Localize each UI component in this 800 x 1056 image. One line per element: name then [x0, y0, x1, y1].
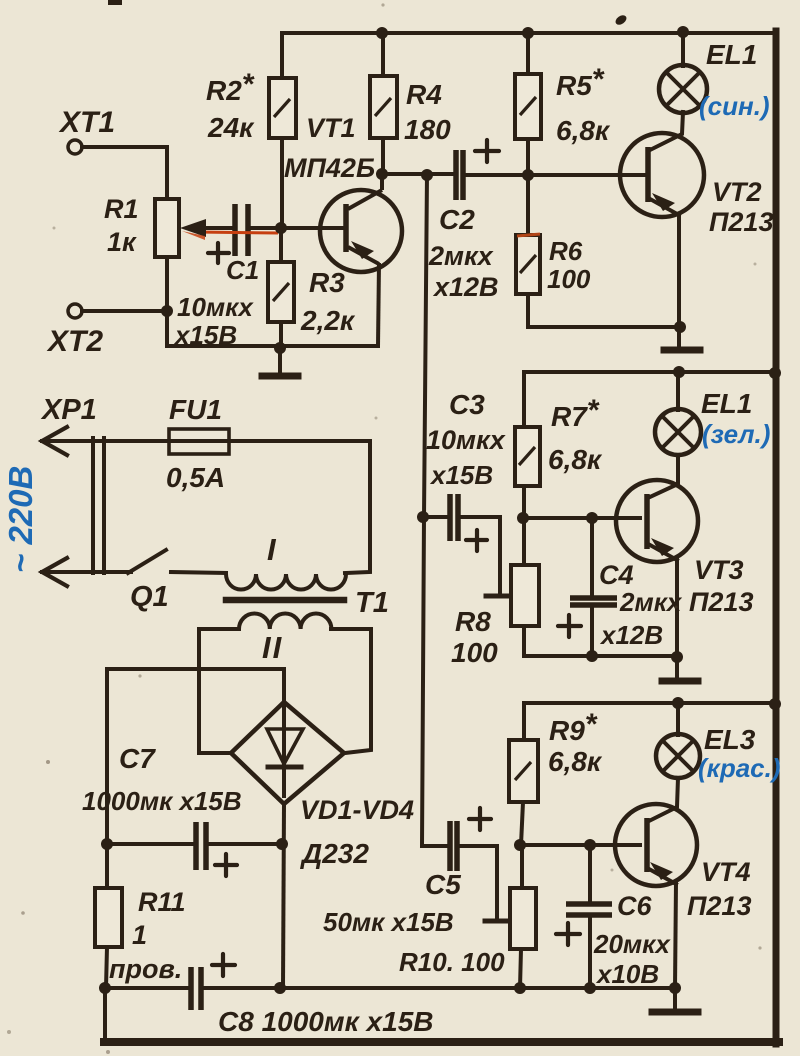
svg-text:Q1: Q1 — [130, 581, 169, 613]
bridge top vertex to plus bus — [107, 669, 284, 845]
wire XT1 to R1 top — [82, 147, 167, 199]
junction dot base node VT3 — [517, 512, 529, 524]
slash mark R2 — [274, 99, 290, 117]
svg-text:100: 100 — [451, 637, 498, 668]
svg-text:XT1: XT1 — [58, 106, 115, 139]
wire R3 bottom to ground node — [279, 322, 283, 350]
slash mark R4 — [375, 98, 391, 116]
transistor VT2 — [620, 133, 704, 217]
terminal XT1 — [68, 140, 82, 154]
svg-text:2мкх: 2мкх — [619, 587, 683, 617]
transistor VT1 — [320, 190, 402, 272]
wire switch to primary — [171, 572, 226, 573]
potentiometer wiper arrow — [180, 219, 206, 237]
svg-text:х12В: х12В — [432, 272, 499, 302]
wire C3 right plate to R8 side — [460, 517, 500, 595]
junction dot R3 ground — [274, 342, 286, 354]
svg-text:VT1: VT1 — [306, 113, 356, 143]
capacitor C8 plates — [188, 967, 194, 1010]
wire base node to VT3 base — [523, 516, 640, 520]
svg-text:EL1: EL1 — [706, 39, 757, 70]
top supply rail — [282, 33, 775, 78]
VT2 emitter column to ground — [677, 214, 681, 349]
C6 top lead — [588, 845, 592, 902]
junction dot collector R4 — [376, 168, 388, 180]
VT4 collector path to lamp — [649, 778, 678, 821]
svg-text:R11: R11 — [138, 887, 186, 917]
VT2 emitter diagonal — [650, 199, 679, 215]
lamp EL1-green top lead — [676, 372, 680, 410]
svg-text:6,8к: 6,8к — [548, 444, 603, 475]
wire R4 top — [381, 33, 385, 76]
svg-text:C3: C3 — [449, 389, 485, 420]
wire base node to VT4 base — [520, 843, 640, 847]
svg-text:0,5А: 0,5А — [166, 462, 225, 493]
junction dot top rail EL1 — [677, 26, 689, 38]
R11 top lead — [105, 844, 109, 888]
svg-text:VD1-VD4: VD1-VD4 — [300, 795, 414, 825]
svg-text:R10. 100: R10. 100 — [399, 947, 505, 977]
svg-text:2,2к: 2,2к — [300, 305, 356, 336]
junction dot base node VT1 — [275, 222, 287, 234]
lamp EL3 top lead — [676, 703, 680, 735]
wire to switch Q1 — [42, 570, 131, 574]
centre vertical rail down to C5 corner — [422, 174, 446, 846]
plus mark C3 — [466, 530, 487, 551]
junction dot rail3 lamp — [672, 697, 684, 709]
R11 bottom lead — [106, 947, 107, 988]
XP1 upper arrow — [42, 427, 67, 455]
svg-text:XP1: XP1 — [40, 394, 97, 426]
svg-text:C1: C1 — [226, 255, 259, 285]
bottom rail right of C8 — [204, 986, 675, 990]
resistor R3 body — [268, 262, 294, 322]
fuse FU1 body — [169, 429, 229, 454]
wire R4 bottom to collector node — [381, 138, 385, 174]
ground bar stage VT1 — [262, 373, 298, 380]
plug pin bar right — [102, 438, 106, 573]
junction dot C4 top — [586, 512, 598, 524]
svg-text:С6: С6 — [617, 891, 652, 921]
svg-text:П213: П213 — [687, 891, 751, 921]
svg-text:6,8к: 6,8к — [556, 115, 611, 146]
junction dot C3 tap — [417, 511, 429, 523]
transistor VT4 — [615, 804, 697, 886]
svg-text:R1: R1 — [104, 194, 139, 224]
svg-text:1к: 1к — [107, 227, 137, 257]
wire R9 bottom to base node — [521, 802, 523, 845]
junction dot C7 left — [101, 838, 113, 850]
terminal XT2 — [68, 304, 82, 318]
wire R5 top — [526, 33, 530, 74]
plus mark C6 — [556, 923, 580, 945]
capacitor C3 plates — [447, 494, 453, 541]
wire R7 bottom to base node — [522, 486, 526, 518]
wire R5 bottom to base line — [526, 139, 530, 175]
junction dot rail2 border — [769, 367, 781, 379]
svg-text:6,8к: 6,8к — [548, 746, 603, 777]
secondary right lead down to bridge — [331, 629, 371, 753]
resistor R11 body — [95, 888, 122, 947]
svg-text:Д232: Д232 — [300, 838, 369, 869]
transformer secondary winding II — [239, 613, 331, 629]
svg-text:VT3: VT3 — [694, 555, 744, 585]
junction dot rail3 border — [769, 698, 781, 710]
plus mark C5 — [469, 808, 491, 830]
slash mark R9 — [515, 762, 531, 780]
bottom rail left of C8 — [105, 986, 187, 990]
junction dot rail2 lamp — [673, 366, 685, 378]
transformer core — [226, 597, 344, 604]
svg-text:20мкх: 20мкх — [593, 929, 671, 959]
junction dot base node VT4 — [514, 839, 526, 851]
svg-text:I: I — [267, 532, 277, 567]
resistor R10 body — [510, 888, 536, 949]
wire R10 bottom — [520, 949, 521, 988]
svg-text:C5: C5 — [425, 869, 461, 900]
junction dot VT3 emitter bus — [671, 651, 683, 663]
svg-text:100: 100 — [547, 264, 591, 294]
channel-2 supply rail — [524, 372, 776, 427]
VT4 emitter diagonal — [649, 869, 676, 884]
resistor R7 body — [515, 427, 540, 486]
svg-text:R3: R3 — [309, 267, 345, 298]
capacitor C2 plates — [453, 150, 459, 200]
transformer primary winding I — [226, 574, 346, 590]
lamp EL1 blue — [659, 65, 707, 113]
junction dot C4 bottom — [586, 650, 598, 662]
C5 tap bar at R10 — [485, 919, 510, 924]
wire R3 top — [279, 228, 283, 262]
slash mark R6 — [520, 255, 536, 273]
XP1 lower arrow — [42, 558, 67, 586]
junction dot bottom rail emitter — [669, 982, 681, 994]
wire C2 right to VT2 base — [465, 173, 648, 177]
C6 bottom lead — [588, 917, 592, 988]
bridge diode cathode bar — [268, 765, 301, 770]
plug pin bar left — [91, 438, 95, 573]
svg-text:R8: R8 — [455, 606, 491, 637]
wire wiper arrow to C1 — [201, 226, 234, 230]
bridge diode triangle — [267, 729, 303, 764]
C4 bottom lead — [590, 606, 594, 656]
wire R8 top — [522, 518, 526, 565]
junction dot R5 base line — [522, 169, 534, 181]
svg-text:R6: R6 — [549, 236, 583, 266]
wire R2 bottom to base node — [280, 138, 284, 228]
potentiometer R1 body — [155, 199, 179, 257]
svg-text:1: 1 — [132, 920, 147, 950]
svg-text:50мк х15В: 50мк х15В — [323, 907, 454, 937]
capacitor C4 plates — [570, 595, 617, 601]
junction dot bottom rail C6 — [584, 982, 596, 994]
VT3 emitter column to ground — [675, 558, 679, 679]
svg-text:T1: T1 — [355, 587, 389, 619]
svg-text:х12В: х12В — [599, 620, 663, 650]
svg-text:FU1: FU1 — [169, 394, 222, 425]
junction dot top rail R4 — [376, 27, 388, 39]
wire base node to VT1 base — [251, 226, 344, 230]
slash mark R7 — [519, 447, 535, 465]
svg-text:180: 180 — [404, 114, 451, 145]
svg-text:EL3: EL3 — [704, 724, 756, 755]
ground bar stage VT4 — [652, 1009, 698, 1016]
wire C3 tap from centre rail — [423, 515, 447, 519]
red tint on R6 top edge — [517, 234, 540, 236]
capacitor C7 plates — [193, 822, 199, 870]
svg-text:C4: C4 — [599, 560, 634, 590]
capacitor C1 plates — [232, 204, 238, 256]
junction dot C7 right — [276, 838, 288, 850]
svg-text:24к: 24к — [207, 112, 255, 143]
bridge rectifier diamond VD1-VD4 — [231, 702, 344, 804]
wire collector node to C2 — [382, 172, 454, 176]
channel-3 supply rail — [524, 703, 776, 740]
right border (frame / common rail) — [773, 31, 780, 1044]
slash mark R3 — [273, 283, 289, 301]
lamp EL1 top lead — [681, 32, 685, 66]
mains wire through fuse — [42, 441, 370, 573]
svg-text:П213: П213 — [689, 587, 753, 617]
svg-text:пров.: пров. — [109, 954, 182, 984]
pen speck top-left — [108, 0, 122, 5]
wire R6 bottom to VT2 emitter column — [528, 294, 680, 327]
pen speck top — [614, 13, 628, 26]
svg-text:C7: C7 — [119, 743, 156, 774]
junction dot C6 top — [584, 839, 596, 851]
svg-text:МП42Б: МП42Б — [284, 153, 375, 183]
svg-text:EL1: EL1 — [701, 388, 752, 419]
resistor R9 body — [509, 740, 538, 802]
C4 top lead — [590, 518, 594, 597]
wire R6 top — [526, 175, 530, 235]
junction dot R6 emitter bus — [674, 321, 686, 333]
red wiper line — [196, 232, 278, 233]
junction dot bottom rail bridge — [274, 982, 286, 994]
svg-text:10мкх: 10мкх — [426, 425, 506, 455]
svg-text:VT4: VT4 — [701, 857, 751, 887]
bottom-left frame drop — [103, 988, 107, 1041]
lamp EL3 red — [656, 734, 700, 778]
VT3 emitter diagonal — [650, 545, 677, 560]
junction dot R1 bottom — [161, 305, 173, 317]
wire XT2 to R1 bottom node — [82, 309, 167, 313]
svg-text:II: II — [262, 630, 283, 665]
resistor R5 body — [515, 74, 541, 139]
VT3 collector path to lamp — [650, 455, 678, 497]
switch Q1 blade — [128, 550, 166, 573]
plus mark C2 — [475, 140, 499, 162]
wire C5 right plate to R10 side — [459, 846, 497, 919]
capacitor C5 plates — [447, 821, 453, 871]
bridge bottom vertex down to bottom rail — [283, 804, 284, 988]
junction dot top rail R5 — [522, 27, 534, 39]
transistor VT3 — [616, 480, 698, 562]
resistor R6 body — [516, 235, 540, 294]
svg-text:XT2: XT2 — [46, 325, 103, 358]
resistor R8 body — [511, 565, 539, 626]
svg-text:~ 220В: ~ 220В — [2, 466, 39, 573]
svg-text:C8 1000мк х15В: C8 1000мк х15В — [218, 1006, 433, 1037]
capacitor C6 plates — [566, 901, 612, 907]
svg-text:х15В: х15В — [173, 320, 237, 350]
C3 tap bar at R8 — [486, 594, 511, 599]
ground bar stage VT2 — [664, 347, 700, 354]
ground stub stage1 — [278, 348, 282, 373]
svg-text:2мкх: 2мкх — [428, 241, 494, 271]
svg-text:VT2: VT2 — [712, 177, 762, 207]
svg-text:х10В: х10В — [595, 959, 659, 989]
ground stub bottom — [673, 988, 677, 1010]
svg-text:C2: C2 — [439, 204, 475, 235]
secondary left lead down to bridge — [199, 629, 239, 753]
plus mark C1 — [208, 243, 229, 263]
svg-text:(син.): (син.) — [699, 91, 770, 121]
svg-text:10мкх: 10мкх — [177, 292, 254, 322]
junction dot centre rail top — [421, 169, 433, 181]
junction dot bottom rail left — [99, 982, 111, 994]
plus mark C8 — [212, 954, 235, 976]
resistor R2 body — [269, 78, 296, 138]
svg-text:П213: П213 — [709, 207, 773, 237]
lamp EL1 bottom lead to VT2 collector — [650, 112, 683, 150]
svg-text:(крас.): (крас.) — [698, 753, 781, 783]
plus mark C4 — [558, 615, 581, 637]
wire R1 bottom to ground bus of stage 1 — [167, 257, 378, 346]
wire R8 bottom to channel-2 ground bus — [524, 626, 678, 656]
plus mark C7 — [215, 854, 237, 876]
ground bar stage VT3 — [662, 678, 698, 685]
bottom border (frame) — [104, 1038, 779, 1046]
wire R10 top — [520, 845, 524, 888]
resistor R4 body — [370, 76, 397, 138]
lamp EL1 green — [655, 409, 701, 455]
svg-text:(зел.): (зел.) — [702, 419, 770, 449]
C7 bus wire left — [107, 842, 193, 846]
svg-text:R4: R4 — [406, 79, 442, 110]
C7 bus wire right — [209, 842, 283, 846]
svg-text:1000мк х15В: 1000мк х15В — [82, 786, 242, 816]
slash mark R5 — [520, 97, 536, 115]
VT4 emitter column — [675, 882, 676, 988]
bridge inner diode lead — [282, 702, 286, 796]
svg-text:х15В: х15В — [429, 460, 493, 490]
junction dot bottom rail R10 — [514, 982, 526, 994]
